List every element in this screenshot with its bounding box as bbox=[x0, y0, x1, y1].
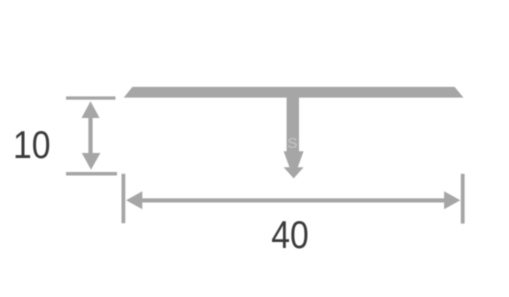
svg-text:S: S bbox=[287, 135, 297, 152]
T-profile stem bbox=[287, 97, 299, 152]
dim-10 down arrowhead bbox=[82, 153, 101, 170]
dim-10 vertical shaft bbox=[88, 112, 92, 159]
dim-10 up arrowhead bbox=[82, 101, 100, 118]
dim-40 right extension line bbox=[461, 174, 465, 224]
dim-40 left arrowhead bbox=[126, 191, 142, 209]
dim-10 bottom tick line bbox=[66, 172, 117, 176]
stem break double arrowhead (upper tall chevron) bbox=[284, 151, 304, 178]
dim-40 right arrowhead bbox=[444, 191, 460, 209]
dim-40 horizontal shaft bbox=[138, 198, 448, 202]
dim-10 top tick line bbox=[66, 96, 116, 99]
svg-text:10: 10 bbox=[13, 123, 51, 167]
dim-40 left extension line bbox=[122, 174, 126, 223]
svg-text:40: 40 bbox=[271, 213, 309, 257]
T-profile flange (horizontal bar, chamfered ends) bbox=[124, 87, 464, 98]
stem break double arrowhead (lower wide chevron) bbox=[284, 167, 304, 178]
